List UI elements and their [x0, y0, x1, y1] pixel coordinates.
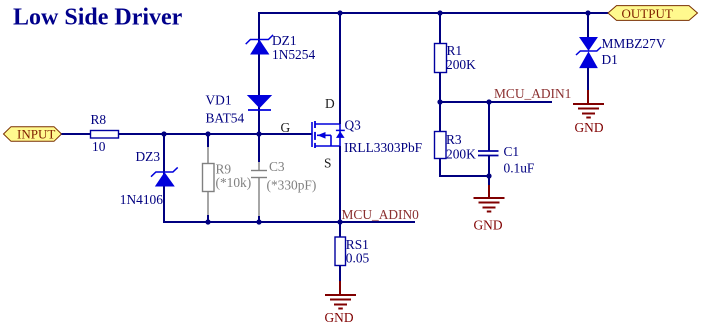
- svg-text:GND: GND: [575, 120, 604, 135]
- node drain/top rail: [337, 10, 342, 15]
- svg-text:C3: C3: [269, 159, 285, 174]
- resistor R3: [435, 132, 477, 162]
- resistor R9 (greyed): [203, 146, 252, 216]
- svg-text:10: 10: [92, 139, 106, 154]
- wire gate net horizontal: [119, 133, 313, 135]
- wire D1 to ground: [587, 68, 589, 91]
- wire input to R8: [62, 133, 92, 135]
- wire R3 bottom: [440, 159, 489, 177]
- wire DZ3 branch: [163, 134, 165, 223]
- wire C3 bottom stub: [258, 216, 260, 222]
- node D1/top rail: [585, 10, 590, 15]
- node C1 tap junction: [486, 99, 491, 104]
- svg-text:R8: R8: [91, 112, 107, 127]
- svg-text:D: D: [325, 96, 335, 111]
- node R1/top rail: [437, 10, 442, 15]
- port OUTPUT: [608, 6, 698, 21]
- svg-text:(*330pF): (*330pF): [267, 178, 317, 193]
- svg-text:C1: C1: [504, 144, 520, 159]
- svg-text:1N4106: 1N4106: [120, 192, 163, 207]
- node R9/bottom junction: [205, 219, 210, 224]
- wire R1 to R3: [439, 73, 441, 133]
- transistor Q3 (N-MOSFET): [312, 118, 422, 156]
- wire RS1 to ground: [339, 266, 341, 283]
- svg-text:MMBZ27V: MMBZ27V: [602, 36, 666, 51]
- bottom rail wire (source net): [163, 221, 415, 223]
- diode VD1: [206, 93, 272, 126]
- capacitor C1: [478, 102, 534, 176]
- node C1/ground junction: [486, 173, 491, 178]
- node source/RS1 junction: [337, 219, 342, 224]
- wire R9 top stub: [207, 134, 209, 147]
- svg-text:OUTPUT: OUTPUT: [622, 6, 673, 21]
- zener diode DZ1: [246, 33, 316, 62]
- ground GND under RS1: [325, 295, 357, 325]
- svg-text:200K: 200K: [446, 147, 476, 162]
- dual zener D1: [576, 36, 666, 68]
- ground GND under D1: [573, 104, 604, 135]
- svg-text:MCU_ADIN0: MCU_ADIN0: [342, 207, 420, 222]
- node gate/DZ3 junction: [161, 131, 166, 136]
- svg-text:DZ1: DZ1: [272, 33, 297, 48]
- node R1/R3 junction: [437, 99, 442, 104]
- svg-text:0.1uF: 0.1uF: [504, 160, 535, 175]
- svg-text:G: G: [281, 120, 291, 135]
- ground GND under C1: [474, 198, 505, 233]
- svg-text:Low Side Driver: Low Side Driver: [13, 5, 183, 31]
- wire R1 column: [439, 12, 441, 44]
- svg-text:S: S: [324, 156, 331, 171]
- top rail wire: [258, 12, 608, 14]
- svg-text:(*10k): (*10k): [216, 175, 252, 190]
- wire R9 bottom stub: [207, 215, 209, 222]
- capacitor C3 (greyed): [251, 159, 316, 217]
- wire DZ1/VD1 branch vertical: [258, 12, 260, 162]
- zener diode DZ3: [120, 149, 178, 207]
- svg-text:200K: 200K: [446, 57, 476, 72]
- svg-text:R1: R1: [447, 43, 463, 58]
- svg-text:GND: GND: [325, 310, 354, 325]
- svg-text:D1: D1: [602, 52, 618, 67]
- svg-text:INPUT: INPUT: [17, 127, 55, 142]
- svg-text:R3: R3: [446, 132, 462, 147]
- wire MCU_ADIN1 horizontal: [440, 101, 552, 103]
- svg-text:1N5254: 1N5254: [272, 47, 315, 62]
- resistor RS1: [335, 237, 370, 266]
- svg-text:0.05: 0.05: [346, 251, 370, 266]
- svg-text:IRLL3303PbF: IRLL3303PbF: [344, 140, 422, 155]
- node gate/R9 junction: [205, 131, 210, 136]
- node C3/bottom junction: [256, 219, 261, 224]
- port INPUT: [4, 127, 62, 142]
- svg-text:BAT54: BAT54: [206, 111, 245, 126]
- node gate/VD1/C3 junction: [256, 131, 261, 136]
- wire drain to top rail: [339, 12, 341, 124]
- svg-text:DZ3: DZ3: [136, 149, 161, 164]
- svg-text:MCU_ADIN1: MCU_ADIN1: [494, 86, 571, 101]
- wire to ground under C1: [488, 176, 490, 186]
- resistor R8: [91, 112, 119, 154]
- svg-text:GND: GND: [474, 218, 503, 233]
- wire source down to RS1: [339, 146, 341, 237]
- wire D1 column top: [587, 12, 589, 38]
- resistor R1: [435, 43, 477, 73]
- svg-text:VD1: VD1: [206, 93, 232, 108]
- svg-text:Q3: Q3: [345, 118, 362, 133]
